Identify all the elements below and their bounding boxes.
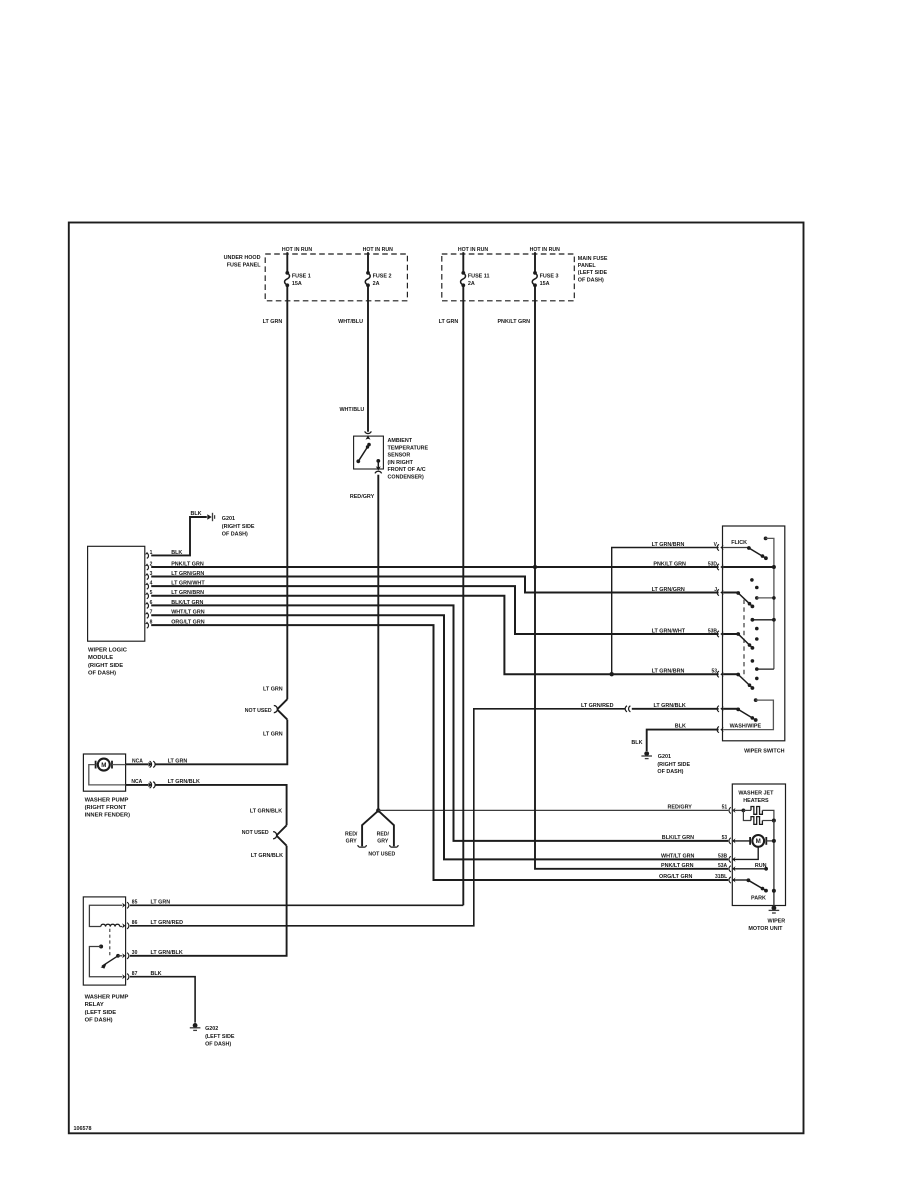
- main fuse panel (dashed box): [442, 254, 575, 301]
- svg-text:53B: 53B: [718, 854, 728, 860]
- svg-text:OF DASH): OF DASH): [657, 769, 683, 775]
- wire PNK/LT GRN fuse3 down to motor 53A: [535, 285, 728, 869]
- under hood fuse panel (dashed box): [265, 254, 407, 301]
- svg-text:WASH/WIPE: WASH/WIPE: [730, 724, 762, 730]
- switch internal 53D to bus: [723, 566, 774, 568]
- switch arm 53: [736, 673, 754, 690]
- svg-text:(RIGHT SIDE: (RIGHT SIDE: [222, 524, 255, 530]
- module pin 3: [145, 571, 153, 580]
- svg-text:RED/GRY: RED/GRY: [350, 494, 375, 500]
- svg-text:RED/GRY: RED/GRY: [668, 805, 693, 811]
- module pin 7: [145, 610, 153, 619]
- fuse F3 15A: [532, 271, 558, 287]
- switch contact to bus (int 3): [755, 667, 774, 671]
- motor RUN contact wire: [733, 868, 766, 870]
- svg-text:15A: 15A: [540, 281, 550, 287]
- svg-text:OF DASH): OF DASH): [222, 532, 248, 538]
- switch wash contact node: [723, 698, 773, 729]
- svg-text:OF DASH): OF DASH): [205, 1042, 231, 1048]
- svg-text:30: 30: [132, 950, 138, 956]
- heater bottom branch: [743, 810, 751, 820]
- wiper motor unit pin 53: [729, 838, 731, 844]
- svg-text:FUSE 3: FUSE 3: [540, 273, 559, 279]
- wiper switch pin 53 y=674.2: [717, 671, 719, 677]
- switch internal V wire: [723, 547, 749, 549]
- switch contact dot c2: [755, 677, 759, 681]
- svg-text:53B: 53B: [708, 628, 718, 634]
- svg-text:53D: 53D: [708, 561, 718, 567]
- wire LT GRN/BLK pump to corner: [155, 785, 287, 825]
- switch arm dashed gang link: [743, 600, 745, 678]
- wire WHT/LT GRN pin7 to wiper motor 53B: [151, 615, 728, 859]
- ground G202: [190, 1023, 201, 1030]
- svg-text:WHT/BLU: WHT/BLU: [338, 319, 363, 325]
- not-used stub connector right: [390, 845, 398, 847]
- fuse F11 2A: [461, 271, 490, 287]
- svg-text:PANEL: PANEL: [578, 263, 597, 269]
- svg-text:WIPER LOGIC: WIPER LOGIC: [88, 648, 128, 654]
- wiper motor M2: [750, 835, 766, 847]
- module pin 6: [145, 600, 153, 609]
- svg-text:(LEFT SIDE: (LEFT SIDE: [85, 1010, 117, 1016]
- svg-text:15A: 15A: [292, 281, 302, 287]
- ground G201 (bottom): [641, 751, 652, 758]
- switch internal J wire: [723, 592, 738, 594]
- fuse F2 2A: [365, 271, 391, 287]
- wire LT GRN/BLK to wiper switch wash: [632, 708, 719, 710]
- heater internal feed: [733, 809, 743, 811]
- wire hot-in-run feed: [367, 252, 369, 273]
- svg-text:G201: G201: [222, 516, 235, 522]
- wire LT GRN/WHT pin4 to wiper switch 53B: [151, 586, 718, 634]
- svg-text:CONDENSER): CONDENSER): [388, 475, 424, 481]
- sensor pin arrow (bottom exit): [376, 466, 381, 470]
- svg-text:NCA: NCA: [131, 779, 142, 785]
- junction switch bus 53D: [772, 565, 776, 569]
- svg-text:BLK: BLK: [631, 740, 642, 746]
- svg-text:LT GRN: LT GRN: [263, 732, 283, 738]
- wiper switch pin 53B y=634.0: [717, 631, 719, 637]
- wire pump motor to terminal A (internal): [112, 764, 125, 766]
- wiper switch pin J y=592.5: [717, 589, 719, 595]
- heating element R1: [751, 807, 762, 815]
- svg-text:53: 53: [722, 835, 728, 841]
- svg-text:WHT/LT GRN: WHT/LT GRN: [661, 854, 695, 860]
- relay actuation dashed link: [109, 929, 111, 957]
- wiper switch box: [723, 526, 785, 741]
- junction RED/GRY splice: [376, 808, 380, 812]
- junction heater bus: [772, 819, 776, 823]
- svg-text:WIPER SWITCH: WIPER SWITCH: [744, 748, 785, 754]
- relay internal 85 to coil: [89, 905, 122, 926]
- svg-text:OF DASH): OF DASH): [88, 671, 116, 677]
- svg-text:MODULE: MODULE: [88, 655, 113, 661]
- svg-text:LT GRN: LT GRN: [439, 319, 459, 325]
- svg-text:LT GRN/BLK: LT GRN/BLK: [654, 703, 686, 709]
- relay pin 86: [122, 923, 125, 928]
- svg-text:(LEFT SIDE: (LEFT SIDE: [205, 1034, 235, 1040]
- switch internal wash wire: [723, 708, 738, 710]
- svg-text:(RIGHT SIDE: (RIGHT SIDE: [88, 663, 123, 669]
- svg-text:2A: 2A: [468, 281, 475, 287]
- wire hot-in-run feed: [534, 252, 536, 273]
- washer pump relay box: [83, 897, 125, 985]
- switch arm FLICK: [747, 546, 768, 560]
- switch contact to bus (int 1): [755, 596, 776, 600]
- svg-text:OF DASH): OF DASH): [578, 277, 604, 283]
- svg-text:GRY: GRY: [377, 838, 389, 844]
- switch internal 53B wire: [723, 633, 738, 635]
- wire RED/GRY not-used stub left: [362, 812, 377, 847]
- relay pin 85: [122, 903, 125, 908]
- svg-text:LT GRN/BRN: LT GRN/BRN: [652, 669, 685, 675]
- svg-text:FUSE PANEL: FUSE PANEL: [227, 262, 261, 268]
- sensor output node: [376, 459, 380, 463]
- wiper switch pin row y=729.6: [717, 727, 719, 733]
- relay fixed contact node: [99, 945, 103, 949]
- sensor thermistor arm: [356, 443, 370, 463]
- wiper switch pin V y=547.5: [717, 544, 719, 550]
- svg-text:PARK: PARK: [751, 895, 766, 901]
- motor to bus: [766, 840, 774, 842]
- wire pump motor to terminal B (internal): [89, 765, 126, 785]
- wire RED/GRY sensor down: [377, 475, 379, 811]
- junction heater split: [742, 809, 746, 813]
- svg-text:WASHER PUMP: WASHER PUMP: [85, 797, 129, 803]
- svg-text:HEATERS: HEATERS: [743, 798, 769, 804]
- svg-text:LT GRN: LT GRN: [168, 759, 188, 765]
- svg-text:WASHER JET: WASHER JET: [738, 790, 774, 796]
- svg-text:ORG/LT GRN: ORG/LT GRN: [659, 874, 693, 880]
- switch contact dot b1: [755, 627, 759, 631]
- washer jet heaters / wiper motor unit box: [732, 784, 785, 906]
- svg-text:PNK/LT GRN: PNK/LT GRN: [653, 561, 686, 567]
- svg-text:FUSE 2: FUSE 2: [373, 273, 392, 279]
- switch contact dot c1: [751, 659, 755, 663]
- ambient temperature sensor U1 box: [354, 436, 384, 469]
- wire RED/GRY to washer jet heaters: [378, 809, 728, 811]
- wiper logic module box: [88, 546, 145, 641]
- relay internal 30 stub: [118, 955, 122, 957]
- svg-text:AMBIENT: AMBIENT: [388, 438, 413, 444]
- wire LT GRN relay85 from fuse11: [130, 904, 464, 906]
- wiper motor unit pin 53A: [729, 866, 731, 872]
- svg-text:LT GRN: LT GRN: [263, 319, 283, 325]
- svg-text:PNK/LT GRN: PNK/LT GRN: [497, 319, 530, 325]
- svg-text:FUSE 11: FUSE 11: [468, 273, 490, 279]
- sensor pin arrow (top entry): [366, 435, 371, 439]
- svg-text:(RIGHT SIDE: (RIGHT SIDE: [657, 762, 690, 768]
- svg-text:NOT USED: NOT USED: [242, 830, 269, 836]
- heater bottom branch out: [762, 820, 774, 822]
- wire sensor output (inside box): [377, 461, 379, 469]
- junction park bus: [772, 889, 776, 893]
- module pin 5: [145, 590, 153, 599]
- svg-text:TEMPERATURE: TEMPERATURE: [388, 445, 429, 451]
- svg-text:HOT IN RUN: HOT IN RUN: [363, 247, 394, 253]
- svg-text:LT GRN/BLK: LT GRN/BLK: [251, 853, 283, 859]
- svg-text:LT GRN/BLK: LT GRN/BLK: [250, 808, 282, 814]
- svg-text:HOT IN RUN: HOT IN RUN: [282, 247, 313, 253]
- module pin 2: [145, 561, 153, 570]
- wire BLK relay87 to G202: [130, 977, 195, 1023]
- wire LT GRN/BRN branch to wiper switch V: [612, 548, 719, 675]
- contact RUN: [764, 867, 768, 871]
- wire WHT/BLU fuse2 to sensor: [367, 285, 369, 432]
- motor bottom terminal to 53B: [733, 847, 758, 860]
- inline connector washer pump (LT GRN/BLK): [149, 783, 153, 788]
- svg-text:NCA: NCA: [132, 759, 143, 765]
- wire LT GRN/BRN pin5 to wiper switch 53: [151, 596, 718, 675]
- fuse F1 15A: [285, 271, 311, 287]
- wiper motor unit pin 31BL: [729, 877, 731, 883]
- svg-text:(IN RIGHT: (IN RIGHT: [388, 460, 414, 466]
- svg-text:LT GRN/BRN: LT GRN/BRN: [652, 542, 685, 548]
- svg-text:INNER FENDER): INNER FENDER): [85, 813, 130, 819]
- washer pump motor M1: [96, 759, 112, 771]
- junction LT GRN/BRN branch: [610, 672, 614, 676]
- module pin 4: [145, 581, 153, 590]
- relay movable contact arm: [101, 954, 120, 969]
- svg-text:2A: 2A: [373, 281, 380, 287]
- svg-text:51: 51: [722, 805, 728, 811]
- svg-text:HOT IN RUN: HOT IN RUN: [458, 247, 489, 253]
- not-used inline connector (LT GRN/BLK): [273, 825, 287, 845]
- wire BLK module pin1 to G201: [151, 517, 207, 555]
- motor park switch wire: [733, 879, 748, 881]
- svg-text:(LEFT SIDE: (LEFT SIDE: [578, 270, 608, 276]
- relay pin 87: [122, 974, 125, 979]
- wire PNK/LT GRN pin2 to wiper switch 53D: [151, 566, 718, 568]
- svg-text:SENSOR: SENSOR: [388, 453, 411, 459]
- sensor bottom inline connector (female arc): [375, 471, 382, 473]
- wire BLK/LT GRN pin6 to wiper motor 53: [151, 605, 728, 841]
- wire LT GRN/GRN pin3 to wiper switch J: [151, 577, 718, 593]
- wiper motor unit pin 53B: [729, 856, 731, 862]
- switch contact dot b2: [755, 637, 759, 641]
- switch internal 53 wire: [723, 673, 738, 675]
- inline connector LT GRN/RED to LT GRN/BLK: [625, 706, 627, 712]
- svg-text:RELAY: RELAY: [85, 1002, 104, 1008]
- wiper motor internal bus: [773, 821, 775, 906]
- switch contact dot a2: [755, 586, 759, 590]
- module pin 1: [145, 550, 153, 559]
- switch arm 53B: [736, 632, 754, 650]
- svg-text:NOT USED: NOT USED: [368, 852, 395, 858]
- wiper switch pin 53D y=567.0: [717, 564, 719, 570]
- svg-text:RED/: RED/: [377, 831, 390, 837]
- svg-text:BLK/LT GRN: BLK/LT GRN: [662, 835, 694, 841]
- svg-text:G201: G201: [658, 754, 671, 760]
- not-used inline connector (LT GRN): [274, 699, 288, 719]
- wire BLK switch to G201: [647, 730, 719, 751]
- svg-text:M: M: [756, 838, 761, 845]
- svg-text:31BL: 31BL: [715, 874, 727, 880]
- svg-text:MAIN FUSE: MAIN FUSE: [578, 256, 608, 262]
- not-used stub connector left: [358, 845, 366, 847]
- switch FLICK upper contact: [764, 537, 768, 541]
- heater top branch out: [762, 810, 774, 820]
- switch contact dot a1: [750, 578, 754, 582]
- svg-text:LT GRN/RED: LT GRN/RED: [581, 703, 614, 709]
- svg-text:HOT IN RUN: HOT IN RUN: [530, 247, 561, 253]
- svg-text:BLK: BLK: [191, 511, 202, 517]
- junction motor bus: [772, 839, 776, 843]
- svg-text:FRONT OF A/C: FRONT OF A/C: [388, 467, 426, 473]
- svg-text:UNDER HOOD: UNDER HOOD: [224, 255, 261, 261]
- inline connector washer pump (LT GRN): [149, 762, 153, 767]
- wire LT GRN fuse1 down: [286, 285, 288, 699]
- svg-text:MOTOR UNIT: MOTOR UNIT: [748, 926, 783, 932]
- relay pin 30: [122, 953, 125, 958]
- svg-text:GRY: GRY: [346, 838, 358, 844]
- svg-text:FLICK: FLICK: [731, 540, 747, 546]
- ground wiper motor unit: [769, 906, 780, 913]
- svg-text:RED/: RED/: [345, 831, 358, 837]
- heater top branch: [743, 809, 751, 811]
- svg-text:WASHER PUMP: WASHER PUMP: [85, 995, 129, 1001]
- module pin 8: [145, 620, 153, 629]
- ground G201 (top): [207, 513, 214, 521]
- wire LT GRN/BLK down to relay 30: [130, 846, 287, 956]
- svg-text:(RIGHT FRONT: (RIGHT FRONT: [85, 805, 127, 811]
- motor internal 53 wire: [733, 840, 750, 842]
- wire hot-in-run feed: [286, 252, 288, 273]
- park switch arm: [747, 878, 768, 892]
- svg-text:WHT/BLU: WHT/BLU: [339, 407, 364, 413]
- svg-text:53: 53: [711, 669, 717, 675]
- switch contact to bus (int 2): [751, 618, 776, 622]
- relay internal coil to 86: [120, 926, 123, 928]
- svg-text:NOT USED: NOT USED: [245, 708, 272, 714]
- svg-text:J: J: [714, 587, 717, 593]
- wire LT GRN down to washer pump row: [155, 720, 287, 765]
- switch arm WASH/WIPE: [736, 708, 757, 722]
- wire LT GRN/RED relay86 run: [130, 709, 626, 926]
- svg-text:LT GRN: LT GRN: [263, 687, 283, 693]
- wiper motor unit pin 51: [729, 807, 731, 813]
- svg-text:106578: 106578: [74, 1126, 92, 1132]
- svg-text:FUSE 1: FUSE 1: [292, 273, 311, 279]
- junction PNK/LT GRN with fuse3 feed: [533, 565, 537, 569]
- wiper switch pin row y=708.8: [717, 706, 719, 712]
- svg-text:LT GRN/GRN: LT GRN/GRN: [652, 587, 685, 593]
- svg-text:M: M: [101, 762, 106, 769]
- svg-text:LT GRN/WHT: LT GRN/WHT: [652, 628, 686, 634]
- svg-text:LT GRN/BLK: LT GRN/BLK: [151, 950, 183, 956]
- wire LT GRN fuse11 down: [462, 285, 464, 905]
- wire ORG/LT GRN pin8 to wiper motor 31BL: [151, 625, 728, 880]
- heating element R2: [751, 817, 762, 825]
- wire hot-in-run feed: [462, 252, 464, 273]
- switch internal flick contact to bus: [766, 538, 774, 669]
- switch arm J: [736, 591, 754, 608]
- svg-text:RUN: RUN: [755, 863, 767, 869]
- wire washer pump terminal B: [126, 784, 149, 786]
- washer pump box: [83, 754, 125, 791]
- relay coil L1: [101, 924, 120, 926]
- svg-text:LT GRN/BLK: LT GRN/BLK: [168, 779, 200, 785]
- svg-text:WIPER: WIPER: [768, 918, 786, 924]
- sensor inline connector (female arc): [365, 431, 372, 433]
- svg-text:G202: G202: [205, 1026, 218, 1032]
- svg-text:OF DASH): OF DASH): [85, 1018, 113, 1024]
- wire washer pump terminal A: [126, 763, 149, 765]
- wire RED/GRY not-used stub right: [379, 812, 394, 847]
- relay internal contact to 87: [89, 947, 122, 977]
